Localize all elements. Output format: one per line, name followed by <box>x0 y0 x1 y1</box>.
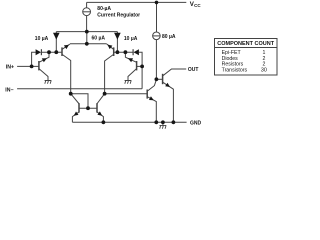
wire 80uA output down to node B <box>155 40 157 80</box>
transistor Q3 emitter leg <box>107 44 114 49</box>
transistor Q1 emitter arrow <box>42 58 47 62</box>
transistor Q4 base bar <box>136 61 138 70</box>
current regulator U1 circle <box>83 8 91 16</box>
transistor Q6 emitter leg <box>163 82 174 122</box>
wire GND rail <box>72 121 186 123</box>
junction node A mirror input <box>69 92 73 96</box>
svg-text:CC: CC <box>194 3 201 8</box>
wire D2 anode to IN- riser <box>139 52 142 89</box>
transistor Q3 base bar <box>113 47 115 56</box>
junction node Q4 base on IN- riser <box>140 65 144 69</box>
diode D1 triangle <box>36 49 41 55</box>
wire IN- lead <box>17 88 142 90</box>
transistor Q2 base bar <box>61 47 63 56</box>
junction node Q8 emitter on GND rail <box>102 120 106 124</box>
diode D2 cathode bar <box>132 49 134 55</box>
wire node N1 <box>41 51 62 53</box>
transistor Q4 emitter arrow <box>128 58 133 62</box>
wire bias bus <box>56 31 117 33</box>
junction node N2 at 10uA <box>116 50 120 54</box>
current source I4 chord <box>153 35 161 37</box>
svg-text:30: 30 <box>261 67 267 73</box>
svg-text:OUT: OUT <box>188 67 199 73</box>
transistor Q8 emitter leg <box>97 112 104 123</box>
diode D1 cathode bar <box>40 49 42 55</box>
transistor Q4 emitter leg <box>125 52 136 62</box>
wire node N2 <box>114 51 133 53</box>
svg-text:IN−: IN− <box>5 87 13 93</box>
current source I2 60uA wire <box>86 32 88 44</box>
junction node IN+ riser <box>30 65 34 69</box>
current source I3 arrow <box>114 33 121 40</box>
current regulator U1 chord <box>83 11 91 13</box>
transistor Q4 collector leg <box>128 69 136 81</box>
svg-text:10 µA: 10 µA <box>35 36 49 42</box>
svg-text:60 µA: 60 µA <box>92 35 106 41</box>
transistor Q1 base bar <box>38 61 40 70</box>
junction node on VCC rail <box>155 1 159 5</box>
transistor Q4 base wire <box>137 65 143 67</box>
svg-text:Current Regulator: Current Regulator <box>97 13 140 19</box>
transistor Q5 collector leg <box>71 94 80 104</box>
svg-text:IN+: IN+ <box>6 64 14 70</box>
junction node N1 at Q1 emitter <box>47 50 51 54</box>
junction node 60uA at emitter bus <box>85 42 89 46</box>
current source I1 arrow <box>53 33 60 40</box>
wire regulator output down to bus <box>86 16 88 32</box>
ground symbol at Q4 collector <box>125 81 132 84</box>
svg-text:80 µA: 80 µA <box>162 34 176 40</box>
transistor Q7 base bar <box>146 90 148 99</box>
transistor Q3 emitter arrow <box>107 45 112 50</box>
ground symbol at GND rail <box>160 122 167 128</box>
junction node Q7 emitter on GND rail <box>154 120 158 124</box>
svg-text:COMPONENT COUNT: COMPONENT COUNT <box>217 41 274 47</box>
wire mirror bias from node A <box>71 94 88 109</box>
transistor Q5 emitter arrow <box>74 112 79 116</box>
wire regulator stub to VCC <box>86 2 88 7</box>
transistor Q1 collector leg <box>39 69 48 81</box>
current source I1 10uA wire <box>55 32 57 53</box>
wire IN+ lead <box>17 65 39 67</box>
svg-text:10 µA: 10 µA <box>124 36 138 42</box>
transistor Q5 emitter leg <box>72 112 79 123</box>
svg-text:Transistors: Transistors <box>222 67 248 73</box>
current source I4 80uA circle <box>153 32 161 40</box>
transistor Q2 emitter arrow <box>64 45 69 49</box>
wire Q5 Q8 base tie <box>79 107 97 109</box>
junction node B at Q6 base <box>155 77 159 81</box>
svg-text:80-µA: 80-µA <box>97 6 111 12</box>
svg-text:GND: GND <box>190 120 202 126</box>
transistor Q6 base wire <box>156 78 162 80</box>
transistor Q8 emitter arrow <box>97 111 102 115</box>
junction node mirror output <box>103 92 107 96</box>
junction node bus at regulator <box>85 30 89 34</box>
transistor Q1 emitter leg <box>39 52 49 62</box>
component count table <box>215 39 278 76</box>
transistor Q7 emitter leg <box>148 97 157 123</box>
wire IN+ riser to diode D1 <box>32 52 36 66</box>
ground symbol at Q1 collector <box>45 81 52 84</box>
junction node N2 at Q4 emitter <box>124 50 128 54</box>
transistor Q8 collector leg <box>97 94 105 104</box>
transistor Q5 base bar <box>78 103 80 112</box>
diode D2 triangle <box>134 49 139 55</box>
transistor Q7 collector leg <box>148 79 157 91</box>
transistor Q2 emitter leg <box>62 44 70 49</box>
junction node Q6 emitter on GND rail <box>172 120 176 124</box>
transistor Q7 emitter arrow <box>149 96 154 100</box>
transistor Q6 emitter arrow <box>165 83 170 87</box>
junction node ground stem on GND rail <box>161 120 165 124</box>
junction node mirror base tie <box>86 106 90 110</box>
wire VCC rail <box>87 1 187 3</box>
transistor Q6 base bar <box>162 74 164 84</box>
transistor Q8 base bar <box>96 103 98 112</box>
wire second stage input to Q7 base <box>105 93 148 95</box>
transistor Q3 collector leg <box>105 55 114 94</box>
junction node N1 at 10uA <box>54 50 58 54</box>
wire 80uA feed from VCC <box>156 2 158 32</box>
transistor Q2 collector leg <box>62 55 70 94</box>
transistor Q6 collector leg to OUT <box>163 69 186 76</box>
current source I3 10uA wire <box>116 32 118 53</box>
wire emitter bus of Q2 Q3 <box>70 43 107 45</box>
